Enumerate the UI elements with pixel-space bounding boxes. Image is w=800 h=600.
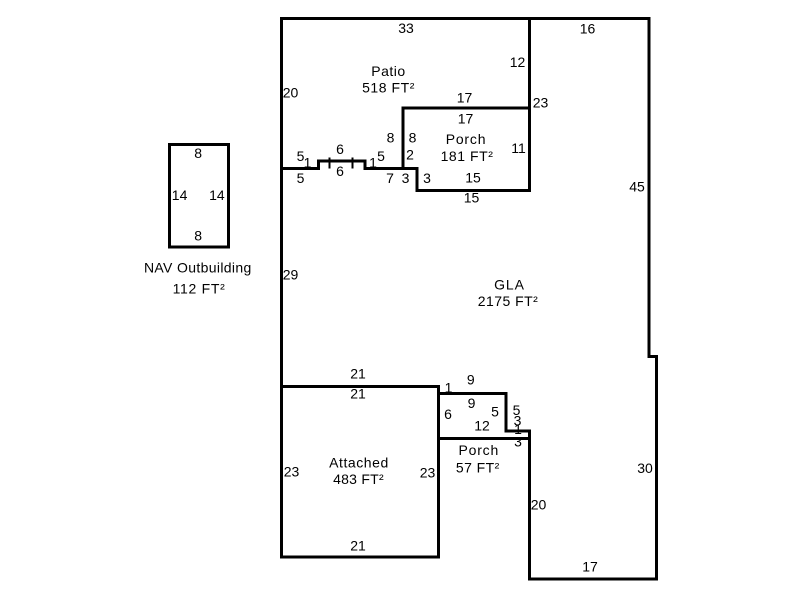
svg-text:Patio: Patio [371, 63, 405, 79]
svg-text:181 FT²: 181 FT² [441, 148, 494, 164]
svg-text:1: 1 [445, 379, 453, 395]
svg-text:Porch: Porch [459, 442, 500, 458]
svg-text:3: 3 [423, 170, 431, 186]
svg-text:45: 45 [629, 179, 645, 195]
svg-text:21: 21 [350, 386, 366, 402]
svg-text:33: 33 [398, 20, 414, 36]
svg-text:5: 5 [377, 148, 385, 164]
svg-text:8: 8 [409, 130, 417, 146]
wire upper porch left and top [403, 108, 531, 170]
svg-text:3: 3 [514, 434, 522, 450]
svg-text:5: 5 [491, 404, 499, 420]
tick mark left [329, 158, 331, 169]
svg-text:7: 7 [386, 170, 394, 186]
svg-text:Attached: Attached [329, 454, 389, 470]
svg-text:112 FT²: 112 FT² [173, 281, 226, 297]
svg-text:15: 15 [464, 190, 480, 206]
svg-text:1: 1 [369, 155, 377, 171]
svg-text:17: 17 [582, 559, 598, 575]
wire right edge with jog and bottom [530, 17, 657, 579]
svg-text:9: 9 [468, 395, 476, 411]
svg-text:21: 21 [350, 366, 366, 382]
wire patio bottom wall with steps [280, 161, 531, 191]
wire main outline left edge [280, 17, 283, 559]
svg-text:GLA: GLA [494, 277, 525, 293]
svg-text:20: 20 [531, 497, 547, 513]
svg-text:6: 6 [336, 141, 344, 157]
svg-text:17: 17 [458, 111, 474, 127]
svg-text:12: 12 [510, 54, 526, 70]
wire main outline top edge [280, 17, 651, 20]
svg-text:21: 21 [350, 538, 366, 554]
svg-text:23: 23 [533, 95, 549, 111]
svg-text:3: 3 [402, 170, 410, 186]
svg-text:17: 17 [457, 90, 473, 106]
svg-text:1: 1 [304, 155, 312, 171]
svg-text:8: 8 [194, 228, 202, 244]
svg-text:20: 20 [283, 85, 299, 101]
wire lower porch bottom [437, 437, 531, 440]
tick mark right [352, 158, 354, 169]
svg-text:57 FT²: 57 FT² [456, 459, 500, 475]
svg-text:8: 8 [387, 130, 395, 146]
outbuilding rectangle [170, 145, 229, 248]
svg-text:NAV Outbuilding: NAV Outbuilding [144, 259, 252, 275]
svg-text:11: 11 [511, 140, 526, 156]
svg-text:8: 8 [194, 145, 202, 161]
svg-text:9: 9 [467, 372, 475, 388]
svg-text:6: 6 [336, 163, 344, 179]
wire patio right vertical [528, 17, 531, 192]
svg-text:14: 14 [172, 187, 188, 203]
svg-text:23: 23 [284, 464, 300, 480]
svg-text:16: 16 [580, 21, 596, 37]
svg-text:14: 14 [209, 187, 225, 203]
svg-text:2: 2 [406, 147, 414, 163]
svg-text:29: 29 [283, 267, 299, 283]
svg-text:483 FT²: 483 FT² [333, 471, 384, 487]
svg-text:23: 23 [420, 465, 436, 481]
svg-text:12: 12 [474, 418, 490, 434]
svg-text:5: 5 [297, 170, 305, 186]
svg-text:518 FT²: 518 FT² [362, 80, 415, 96]
wire attached garage outline [280, 387, 439, 558]
svg-text:30: 30 [637, 460, 653, 476]
wire lower porch step [437, 394, 531, 432]
svg-text:Porch: Porch [446, 131, 487, 147]
svg-text:2175 FT²: 2175 FT² [478, 293, 538, 309]
svg-text:15: 15 [465, 170, 481, 186]
svg-text:6: 6 [444, 406, 452, 422]
